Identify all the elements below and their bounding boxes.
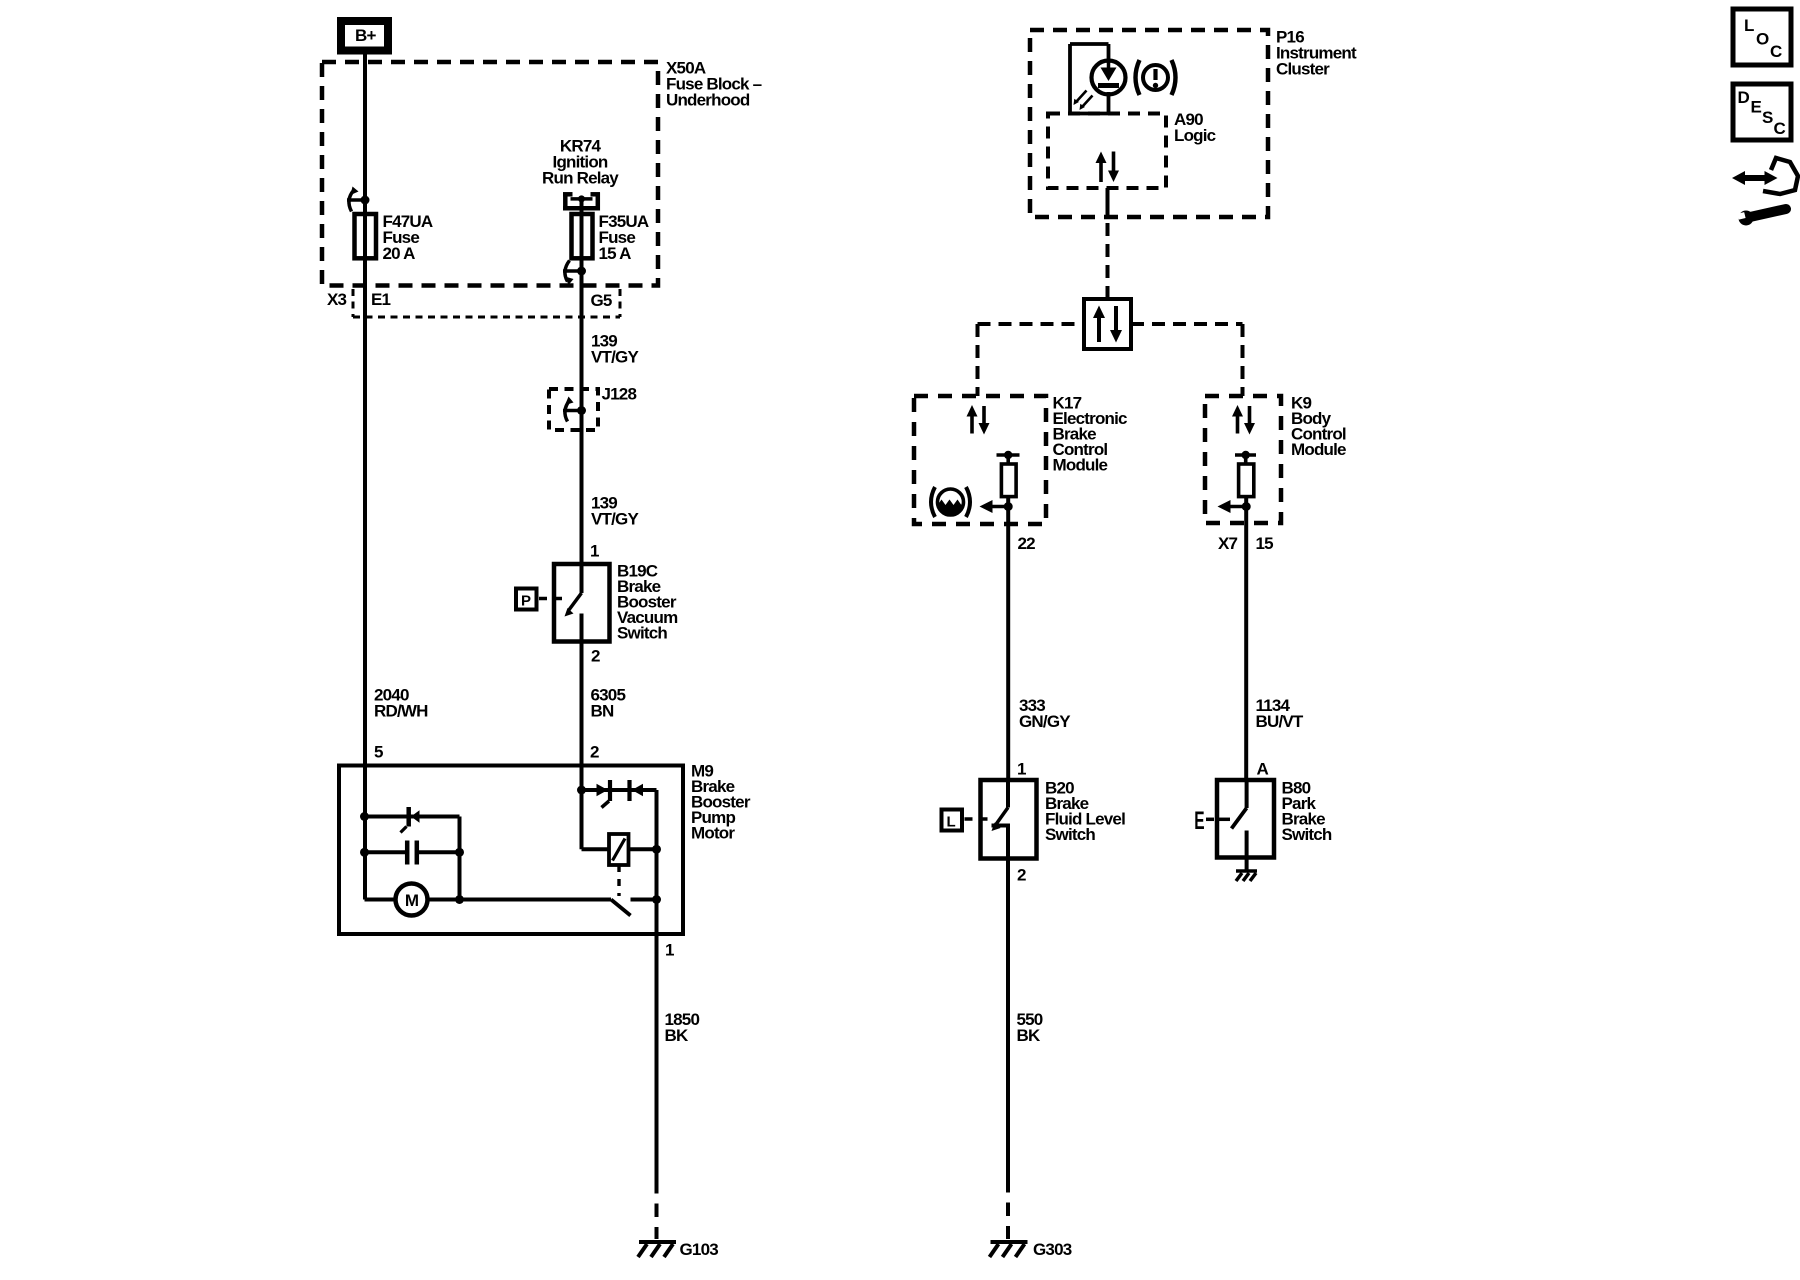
svg-text:BN: BN <box>591 702 614 721</box>
label F35UA Fuse 15 A <box>599 212 649 263</box>
junction dot switch right <box>652 895 661 904</box>
battery feed B+ terminal <box>341 21 388 51</box>
label KR74 Ignition Run Relay <box>542 137 619 188</box>
park brake port E at B80 <box>1194 807 1214 835</box>
svg-text:Cluster: Cluster <box>1276 60 1330 79</box>
motor switch blade <box>611 900 631 916</box>
dashed wire to ground G103 <box>655 1180 659 1239</box>
bus tap symbol below fuse F35UA <box>563 261 582 286</box>
vacuum port P box at B19C <box>516 589 566 610</box>
label B19C Brake Booster Vacuum Switch <box>617 562 678 643</box>
junction dot motor row right <box>455 895 464 904</box>
splice J128 dashed box <box>549 389 598 430</box>
connector row box X3 <box>353 289 620 317</box>
svg-text:E: E <box>1751 98 1762 117</box>
thermal protector element 2 <box>630 780 644 801</box>
svg-text:2: 2 <box>590 743 599 762</box>
wire A90 to serial data link <box>1106 188 1110 219</box>
label P16 Instrument Cluster <box>1276 28 1357 79</box>
fuse F47UA 20 A <box>355 214 377 258</box>
wire M9 top-right feed horizontal <box>582 788 657 792</box>
LOC reference box <box>1733 9 1791 65</box>
label B80 Park Brake Switch <box>1282 779 1332 845</box>
svg-text:20 A: 20 A <box>383 244 416 263</box>
label circuit 1134 BU/VT <box>1256 696 1304 731</box>
svg-text:Underhood: Underhood <box>666 91 750 110</box>
svg-text:BK: BK <box>665 1026 689 1045</box>
ground G103 symbol <box>638 1242 676 1257</box>
junction dot at J128 <box>577 406 586 415</box>
label circuit 550 BK <box>1017 1010 1043 1045</box>
inner right vertical bus of suppression network <box>458 817 462 900</box>
switch B20 blade and contact <box>992 780 1009 859</box>
DESC reference box <box>1733 84 1791 140</box>
dashed data drop to K9 <box>1241 324 1245 396</box>
motor switch fixed contact wire <box>631 898 657 902</box>
wrench icon <box>1737 209 1786 226</box>
svg-text:Switch: Switch <box>1282 825 1332 844</box>
junction dot at F47UA tap <box>361 196 370 205</box>
label circuit 2040 RD/WH <box>374 686 428 721</box>
motor row wire right <box>428 898 612 902</box>
bus tap symbol inside J128 <box>563 397 582 422</box>
svg-text:2: 2 <box>1017 866 1026 885</box>
capacitor C plates <box>407 841 417 865</box>
relay coil box inside M9 <box>609 834 629 865</box>
switch B80 box <box>1217 780 1274 858</box>
motor M circle <box>396 884 428 916</box>
label circuit 1850 BK <box>665 1010 700 1045</box>
diagnostic navigation icon <box>1732 158 1798 194</box>
brake fluid warning icon in K17 <box>931 487 970 517</box>
module K17 dashed box <box>914 396 1046 524</box>
label circuit 333 GN/GY <box>1019 696 1071 731</box>
module K9 dashed box <box>1205 396 1281 523</box>
wire K17 output to pin 22 <box>1006 497 1010 780</box>
label circuit 139 VT/GY upper <box>591 332 639 367</box>
svg-text:X7: X7 <box>1218 534 1238 553</box>
local chassis ground at B80 <box>1236 871 1257 881</box>
wire K9 output to pin 15 <box>1244 497 1248 780</box>
label K9 Body Control Module <box>1291 394 1346 460</box>
driver output element in K17 <box>997 451 1020 497</box>
bidirectional data arrows in A90 <box>1096 152 1120 183</box>
switch B19C blade and contact <box>565 593 582 642</box>
svg-text:C: C <box>1770 42 1782 61</box>
suppression capacitor branch wire <box>365 850 460 854</box>
serial data gateway box <box>1084 299 1131 349</box>
junction dot at F35UA tap <box>577 267 586 276</box>
brake warning indicator LED <box>1074 61 1126 111</box>
dashed actuator link coil to switch <box>617 865 620 896</box>
svg-text:Module: Module <box>1291 440 1346 459</box>
wire B+ feed vertical (circuit 2040 path) <box>363 52 367 900</box>
wire circuit 6305 vertical <box>580 614 584 850</box>
svg-text:2: 2 <box>591 647 600 666</box>
svg-text:22: 22 <box>1018 534 1036 553</box>
svg-text:15 A: 15 A <box>599 244 632 263</box>
svg-text:E1: E1 <box>371 290 391 309</box>
internal signal arrow K9 <box>1218 500 1247 513</box>
suppression branch top wire <box>365 815 460 819</box>
svg-text:Switch: Switch <box>617 624 667 643</box>
svg-text:BU/VT: BU/VT <box>1256 712 1304 731</box>
relay coil to right bus wire <box>629 847 657 851</box>
wire B80 to local ground <box>1245 858 1249 872</box>
relay KR74 contact bracket <box>563 193 600 211</box>
svg-text:1: 1 <box>665 941 674 960</box>
dashed data drop to K17 <box>976 324 980 396</box>
svg-text:L: L <box>1744 16 1754 35</box>
svg-text:O: O <box>1756 30 1769 49</box>
svg-text:Switch: Switch <box>1045 825 1095 844</box>
bidirectional data arrows in K17 <box>967 405 990 435</box>
svg-text:BK: BK <box>1017 1026 1041 1045</box>
wire circuit 550 vertical <box>1006 859 1010 1180</box>
dashed data bus right <box>1131 322 1243 326</box>
svg-text:G303: G303 <box>1033 1240 1072 1259</box>
motor row wire left <box>365 898 396 902</box>
svg-text:Run Relay: Run Relay <box>542 169 619 188</box>
switch B20 box <box>981 780 1037 859</box>
driver output element in K9 <box>1235 451 1256 497</box>
junction dot coil right <box>652 845 661 854</box>
fuse F35UA 15 A <box>572 214 593 258</box>
svg-text:M: M <box>405 891 419 910</box>
label X50A Fuse Block - Underhood <box>666 59 762 110</box>
junction dot K17 output node <box>1004 502 1013 511</box>
label F47UA Fuse 20 A <box>383 212 433 263</box>
switch B80 blade and contact <box>1219 780 1247 858</box>
diode element in top branch <box>401 807 420 833</box>
junction dot left top branch <box>360 812 369 821</box>
junction dot K9 output node <box>1242 502 1251 511</box>
indicator LED loop wiring <box>1070 44 1109 114</box>
switch B19C box <box>554 564 610 642</box>
label circuit 6305 BN <box>591 686 626 721</box>
junction dot M9 pin2 node <box>577 786 586 795</box>
svg-text:P: P <box>521 593 531 610</box>
label circuit 139 VT/GY lower <box>591 494 639 529</box>
svg-text:D: D <box>1738 88 1750 107</box>
svg-text:C: C <box>1774 119 1786 138</box>
dashed serial data wire <box>1106 223 1110 299</box>
svg-text:1: 1 <box>1017 760 1026 779</box>
label B20 Brake Fluid Level Switch <box>1045 779 1125 845</box>
svg-text:G103: G103 <box>680 1240 719 1259</box>
svg-text:X3: X3 <box>327 290 347 309</box>
thermal protector element 1 <box>597 780 611 808</box>
relay coil row wire <box>582 847 610 851</box>
svg-text:B+: B+ <box>355 26 376 45</box>
ground G303 symbol <box>990 1242 1028 1257</box>
bidirectional data arrows in K9 <box>1232 405 1255 435</box>
label M9 Brake Booster Pump Motor <box>691 762 751 843</box>
svg-text:5: 5 <box>374 743 383 762</box>
wire M9 right vertical to pin 1 <box>655 790 659 1180</box>
svg-text:Logic: Logic <box>1174 126 1216 145</box>
motor assembly M9 box <box>339 766 683 935</box>
wire ignition feed vertical (circuit 139) <box>580 199 584 593</box>
dashed data bus left <box>978 322 1085 326</box>
bus tap symbol at fuse F47UA <box>347 187 365 212</box>
fluid level port L box at B20 <box>942 810 992 831</box>
svg-text:Module: Module <box>1053 456 1108 475</box>
svg-text:S: S <box>1762 108 1773 127</box>
svg-text:G5: G5 <box>591 291 612 310</box>
fuse block X50A dashed outline <box>322 62 658 286</box>
svg-text:Motor: Motor <box>691 824 735 843</box>
bidirectional data arrows in gateway <box>1093 306 1122 343</box>
junction dots capacitor row <box>360 848 464 857</box>
svg-text:GN/GY: GN/GY <box>1019 712 1071 731</box>
label K17 Electronic Brake Control Module <box>1053 394 1128 475</box>
brake warning telltale icon <box>1136 60 1176 95</box>
svg-text:15: 15 <box>1256 534 1274 553</box>
svg-text:1: 1 <box>590 542 599 561</box>
svg-text:VT/GY: VT/GY <box>591 348 639 367</box>
svg-text:E: E <box>1194 807 1204 835</box>
svg-text:L: L <box>947 814 956 831</box>
svg-text:A: A <box>1257 760 1269 779</box>
svg-text:VT/GY: VT/GY <box>591 510 639 529</box>
internal signal arrow K17 <box>980 500 1009 513</box>
svg-text:RD/WH: RD/WH <box>374 702 428 721</box>
logic module A90 dashed box <box>1048 114 1166 189</box>
label A90 Logic <box>1174 110 1216 145</box>
svg-text:J128: J128 <box>602 385 637 404</box>
instrument cluster P16 dashed box <box>1030 30 1268 217</box>
dashed wire to ground G303 <box>1006 1179 1010 1239</box>
